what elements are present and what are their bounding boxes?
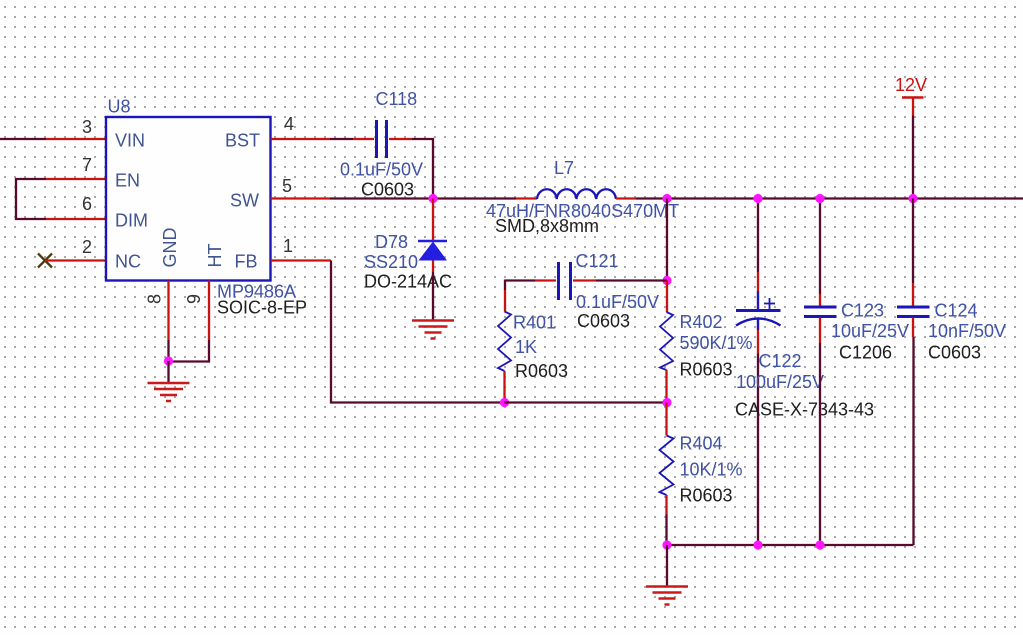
node R401 bottom junction: [500, 398, 509, 407]
node SW junction: [428, 194, 437, 203]
op-amp U8 MP9486A: [82, 97, 307, 318]
node GND junction: [164, 356, 173, 365]
wire to bottom ground: [666, 545, 668, 586]
svg-text:CASE-X-7343-43: CASE-X-7343-43: [735, 400, 874, 420]
capacitor C123: [804, 199, 909, 546]
wire VIN left: [0, 138, 106, 140]
svg-text:D78: D78: [375, 232, 408, 252]
svg-text:R404: R404: [680, 434, 723, 454]
wire ground rail: [667, 544, 914, 546]
svg-text:C0603: C0603: [928, 343, 981, 363]
svg-text:0.1uF/50V: 0.1uF/50V: [340, 160, 423, 180]
svg-text:R0603: R0603: [515, 361, 568, 381]
wire pin9 HT: [169, 281, 210, 362]
wire SW node to L7: [433, 197, 516, 199]
wire VOUT rail: [667, 197, 1023, 199]
svg-text:C122: C122: [759, 351, 802, 371]
svg-text:0.1uF/50V: 0.1uF/50V: [576, 292, 659, 312]
wire to chip ground: [167, 361, 169, 382]
svg-text:HT: HT: [205, 244, 225, 268]
svg-text:4: 4: [284, 114, 294, 134]
wire VOUT down to C121 node: [666, 199, 668, 281]
svg-text:SW: SW: [230, 191, 259, 211]
svg-text:9: 9: [184, 294, 204, 304]
svg-text:R402: R402: [680, 312, 723, 332]
svg-text:GND: GND: [160, 228, 180, 268]
svg-text:SMD,8x8mm: SMD,8x8mm: [495, 216, 599, 236]
svg-text:2: 2: [82, 237, 92, 257]
svg-text:R0603: R0603: [680, 486, 733, 506]
svg-text:10K/1%: 10K/1%: [680, 460, 743, 480]
capacitor C121: [505, 251, 667, 331]
capacitor C122: [735, 199, 874, 546]
wire FB rail to R402: [505, 401, 668, 403]
diode D78 SS210: [364, 199, 452, 292]
svg-text:C1206: C1206: [839, 343, 892, 363]
node 12V junction: [908, 194, 917, 203]
svg-text:L7: L7: [554, 158, 574, 178]
svg-text:6: 6: [82, 194, 92, 214]
node ground rail junction: [662, 540, 671, 549]
svg-text:10uF/25V: 10uF/25V: [831, 321, 909, 341]
svg-text:590K/1%: 590K/1%: [680, 333, 753, 353]
svg-text:R401: R401: [513, 313, 556, 333]
svg-text:1K: 1K: [515, 337, 537, 357]
svg-text:VIN: VIN: [115, 131, 145, 151]
no-connect X on pin 2: [38, 254, 106, 268]
resistor R402: [660, 281, 753, 403]
svg-text:BST: BST: [225, 131, 260, 151]
svg-text:U8: U8: [108, 97, 131, 117]
node C121 junction: [662, 276, 671, 285]
wire C118 to SW node: [412, 139, 433, 199]
wire BST to C118: [271, 138, 354, 140]
svg-text:7: 7: [82, 155, 92, 175]
svg-text:C0603: C0603: [577, 311, 630, 331]
node C122 top junction: [753, 194, 762, 203]
wire FB: [271, 261, 505, 403]
svg-text:8: 8: [145, 294, 165, 304]
svg-text:R0603: R0603: [680, 360, 733, 380]
node C122 bottom junction: [753, 540, 762, 549]
svg-text:SOIC-8-EP: SOIC-8-EP: [217, 298, 307, 318]
wire EN-DIM loop: [16, 179, 106, 219]
svg-text:SS210: SS210: [364, 252, 418, 272]
svg-text:10nF/50V: 10nF/50V: [928, 321, 1006, 341]
wire C121 corner down to R401: [504, 280, 506, 291]
svg-text:NC: NC: [115, 252, 141, 272]
ground under D78: [412, 321, 454, 339]
svg-text:12V: 12V: [895, 75, 927, 95]
svg-text:5: 5: [282, 176, 292, 196]
svg-text:FB: FB: [234, 252, 257, 272]
resistor R404: [660, 403, 743, 546]
ground under chip: [148, 383, 190, 401]
inductor L7: [486, 158, 679, 236]
svg-text:3: 3: [82, 117, 92, 137]
node FB junction: [662, 398, 671, 407]
capacitor C124: [897, 199, 1006, 546]
svg-text:100uF/25V: 100uF/25V: [736, 372, 824, 392]
svg-text:DIM: DIM: [115, 211, 148, 231]
capacitor C118: [340, 89, 423, 200]
node C123 top junction: [815, 194, 824, 203]
svg-text:C118: C118: [376, 89, 418, 109]
power 12V: [895, 75, 927, 199]
svg-text:1: 1: [283, 236, 293, 256]
svg-text:C121: C121: [576, 251, 619, 271]
svg-text:C124: C124: [935, 301, 978, 321]
wire SW: [271, 197, 434, 199]
svg-text:DO-214AC: DO-214AC: [364, 272, 452, 292]
resistor R401: [498, 290, 568, 403]
wire L7 to VOUT node: [636, 197, 667, 199]
ground bottom: [646, 587, 688, 605]
wire pin8 GND: [167, 281, 169, 362]
node C123 bottom junction: [815, 540, 824, 549]
svg-text:C0603: C0603: [361, 180, 414, 200]
svg-text:C123: C123: [841, 301, 884, 321]
svg-text:EN: EN: [115, 171, 140, 191]
node VOUT junction: [662, 194, 671, 203]
wire D78 to ground: [432, 272, 434, 320]
